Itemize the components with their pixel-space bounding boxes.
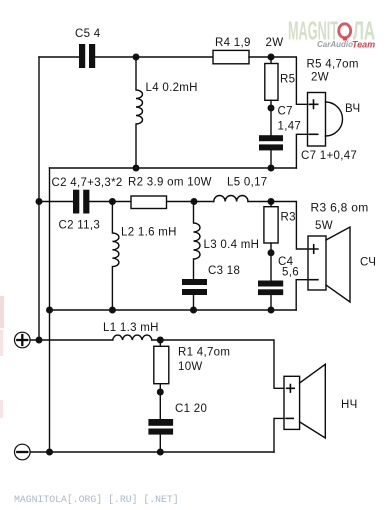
inductor L1 bbox=[113, 335, 152, 340]
node C3 bottom bbox=[190, 307, 197, 314]
node C4 bottom bbox=[268, 307, 275, 314]
wire R1 to C1 bbox=[159, 384, 161, 419]
speaker NCh minus bbox=[286, 417, 293, 419]
svg-text:C3 18: C3 18 bbox=[208, 265, 240, 277]
wire mid horizontal net bbox=[39, 202, 308, 250]
inductor L3 bbox=[194, 202, 201, 280]
speaker NCh plus bbox=[287, 385, 295, 393]
speaker NCh box U3 bbox=[284, 376, 300, 429]
wire left outer vertical bbox=[38, 57, 40, 340]
svg-text:L3 0.4 mH: L3 0.4 mH bbox=[204, 239, 260, 251]
svg-text:Team: Team bbox=[352, 40, 375, 50]
resistor R4 bbox=[213, 50, 249, 63]
capacitor C7 bbox=[259, 135, 283, 150]
wire C3 to mid-bottom bbox=[193, 295, 195, 310]
capacitor C3 bbox=[182, 279, 207, 295]
speaker VCh box U1 bbox=[308, 93, 326, 147]
svg-text:R1 4,7om: R1 4,7om bbox=[178, 347, 230, 359]
wire R3 to C4 bbox=[270, 243, 272, 281]
node L2 bottom bbox=[109, 307, 116, 314]
wire R5 to C7 bbox=[270, 100, 272, 135]
wire SCh minus return bbox=[296, 280, 308, 310]
svg-text:R5 4,7om: R5 4,7om bbox=[307, 59, 359, 71]
wire net2 horizontal bbox=[50, 167, 297, 169]
speaker SCh cone bbox=[326, 227, 350, 302]
wire NCh minus return bbox=[274, 418, 284, 452]
wire plus to L1 bbox=[30, 339, 113, 341]
terminal plus bbox=[14, 332, 30, 348]
wire C7 to net2 bbox=[270, 150, 272, 168]
speaker VCh plus bbox=[309, 100, 317, 108]
node L4 bottom bbox=[133, 165, 140, 172]
logo O ring bbox=[339, 24, 351, 38]
svg-text:C5 4: C5 4 bbox=[75, 28, 101, 40]
node R5 top bbox=[268, 54, 275, 61]
resistor R5 bbox=[270, 57, 272, 64]
capacitor C1 bbox=[148, 419, 173, 435]
svg-text:CarAudio: CarAudio bbox=[317, 40, 353, 49]
node R1 top bbox=[157, 337, 164, 344]
wire C1 to bottom net bbox=[159, 435, 161, 452]
node mid-bottom left bbox=[46, 307, 53, 314]
wire R4 to tweeter corner bbox=[249, 57, 308, 104]
node R3 top bbox=[268, 198, 275, 205]
terminal minus bbox=[14, 444, 30, 460]
inductor L2 bbox=[112, 202, 119, 311]
svg-text:MAGNITOLA[.ORG] [.RU] [.NET]: MAGNITOLA[.ORG] [.RU] [.NET] bbox=[14, 494, 179, 505]
svg-text:R5: R5 bbox=[280, 74, 295, 86]
node L3 top bbox=[191, 198, 198, 205]
svg-text:5W: 5W bbox=[315, 220, 333, 232]
wire L1 to NCh corner bbox=[152, 340, 284, 388]
speaker NCh cone bbox=[300, 364, 326, 438]
svg-text:L4 0.2mH: L4 0.2mH bbox=[146, 82, 198, 94]
wire top horizontal net (+ to C5) bbox=[39, 56, 79, 58]
svg-text:L2 1.6 mH: L2 1.6 mH bbox=[121, 227, 177, 239]
svg-text:1,47: 1,47 bbox=[278, 121, 302, 133]
svg-text:10W: 10W bbox=[178, 361, 203, 373]
svg-text:C1 20: C1 20 bbox=[175, 403, 207, 415]
speaker SCh minus bbox=[310, 279, 318, 281]
capacitor C5 bbox=[79, 44, 95, 68]
node bottom net2 bbox=[46, 449, 53, 456]
node L4 top bbox=[133, 54, 140, 61]
svg-text:2W: 2W bbox=[266, 37, 284, 49]
resistor R3 bbox=[270, 202, 272, 207]
node C7 bottom bbox=[268, 165, 275, 172]
node R1-C1 bbox=[157, 389, 164, 396]
svg-text:5,6: 5,6 bbox=[282, 267, 299, 279]
svg-text:СЧ: СЧ bbox=[360, 257, 376, 269]
svg-text:L5 0,17: L5 0,17 bbox=[227, 177, 267, 189]
inductor L4 bbox=[136, 57, 143, 168]
svg-text:2W: 2W bbox=[311, 72, 329, 84]
node mid-left bbox=[36, 198, 43, 205]
svg-text:ВЧ: ВЧ bbox=[345, 103, 360, 115]
svg-text:C7 1+0,47: C7 1+0,47 bbox=[301, 150, 357, 162]
wire C4 to mid-bottom bbox=[270, 295, 272, 310]
node C1 bottom bbox=[157, 449, 164, 456]
speaker VCh dome bbox=[326, 102, 343, 136]
svg-text:C7: C7 bbox=[278, 106, 293, 118]
svg-text:L1 1.3 mH: L1 1.3 mH bbox=[103, 322, 159, 334]
node L2 top bbox=[109, 198, 116, 205]
resistor R2 bbox=[131, 196, 167, 209]
wire VCh minus return bbox=[296, 134, 307, 168]
speaker SCh plus bbox=[310, 245, 318, 253]
watermark artifact left edge mid bbox=[0, 330, 3, 356]
svg-text:R3: R3 bbox=[281, 212, 296, 224]
speaker VCh minus bbox=[309, 133, 317, 135]
wire bottom horizontal net bbox=[30, 451, 274, 453]
svg-text:C2 11,3: C2 11,3 bbox=[59, 219, 101, 231]
capacitor C2 bbox=[73, 190, 89, 214]
wire C5 to R4 bbox=[95, 56, 213, 58]
svg-text:R4 1,9: R4 1,9 bbox=[215, 37, 251, 49]
node R3-C4 bbox=[268, 249, 275, 256]
svg-text:C2 4,7+3,3*2: C2 4,7+3,3*2 bbox=[52, 177, 123, 189]
svg-text:R3 6,8 om: R3 6,8 om bbox=[311, 201, 369, 215]
watermark artifact left edge upper bbox=[0, 296, 4, 328]
svg-text:НЧ: НЧ bbox=[341, 399, 358, 411]
node R5-C7 bbox=[268, 105, 275, 112]
inductor L5 bbox=[214, 196, 248, 202]
resistor R1 bbox=[159, 340, 161, 346]
speaker SCh box U2 bbox=[308, 236, 326, 290]
wire net2 vertical drop bbox=[49, 168, 51, 452]
wire mid-bottom horizontal bbox=[50, 309, 297, 311]
node left-outer bottom bbox=[36, 337, 43, 344]
svg-text:R2 3.9 om 10W: R2 3.9 om 10W bbox=[128, 177, 212, 189]
capacitor C4 bbox=[258, 281, 283, 296]
watermark artifact left edge lower bbox=[0, 400, 3, 418]
